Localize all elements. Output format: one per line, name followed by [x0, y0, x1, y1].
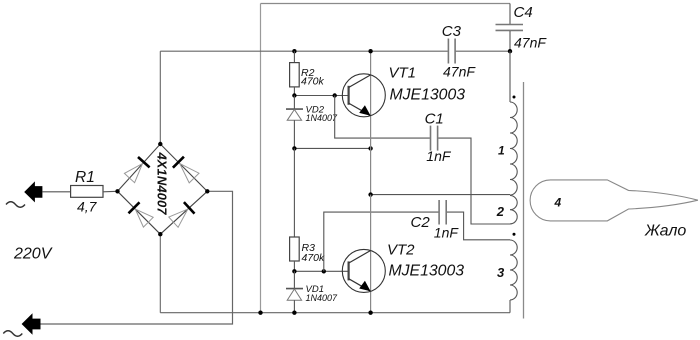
wire C4 top lead [509, 4, 511, 25]
svg-text:4X1N4007: 4X1N4007 [155, 152, 170, 216]
svg-text:470k: 470k [302, 252, 326, 264]
svg-text:1N4007: 1N4007 [306, 293, 339, 303]
wire AC return [41, 191, 233, 324]
bridge diode D-topleft [124, 157, 149, 183]
node bridge left [115, 189, 119, 193]
svg-text:1N4007: 1N4007 [306, 113, 339, 123]
node bridge top [158, 142, 162, 146]
svg-text:2: 2 [496, 204, 505, 219]
wire left border [260, 4, 262, 313]
bridge diode D-bottomleft [129, 202, 154, 227]
transformer winding 1 [498, 102, 517, 195]
winding 3 polarity dot [513, 233, 516, 236]
svg-text:Жало: Жало [644, 222, 686, 239]
AC input arrow bottom [3, 313, 40, 336]
svg-text:47nF: 47nF [514, 35, 547, 51]
wire R1 left lead [42, 191, 70, 193]
wire bridge top riser [159, 51, 161, 144]
wire plus rail [160, 50, 510, 52]
svg-text:4: 4 [554, 195, 562, 209]
wire C1 branch [335, 96, 510, 225]
capacitor C1 [425, 110, 452, 164]
node mid rail [368, 192, 372, 196]
node C4/C3/winding junction [508, 49, 512, 53]
wire C4 bottom lead [509, 31, 511, 51]
wire column VD2 to R3 [293, 148, 295, 237]
wire mid rail [371, 194, 510, 196]
svg-text:1: 1 [498, 144, 505, 158]
svg-text:220V: 220V [13, 246, 53, 263]
AC input arrow top [6, 181, 42, 207]
svg-text:1nF: 1nF [434, 224, 460, 240]
svg-text:C2: C2 [411, 214, 431, 231]
node C2 branch [322, 269, 326, 273]
node VD2 bottom [292, 146, 296, 150]
svg-text:VT2: VT2 [387, 242, 415, 259]
wire C2 branch [324, 212, 510, 271]
svg-text:1nF: 1nF [426, 148, 452, 164]
wire VD2 to emitter [294, 147, 370, 149]
diode VD2 [286, 96, 338, 149]
resistor R1 [71, 169, 103, 215]
node R2 top [292, 49, 296, 53]
wire R2 bottom lead [293, 87, 295, 96]
wire VT1 collector-emitter vertical [370, 51, 372, 194]
node VT1 base/R2/VD2 [292, 93, 296, 97]
svg-text:C1: C1 [425, 110, 444, 127]
svg-text:MJE13003: MJE13003 [390, 87, 466, 104]
bridge diamond edges [118, 144, 208, 234]
capacitor C4 [496, 4, 548, 51]
bridge 4X1N4007 [115, 142, 209, 237]
node C1 branch [333, 93, 337, 97]
node VT1 collector top [368, 49, 372, 53]
soldering tip winding 4 (Zhalo) [530, 180, 698, 221]
wire R2 top lead [293, 51, 295, 62]
transistor VT2 [342, 242, 464, 293]
wire winding 1 lead [509, 51, 511, 102]
transformer winding 2 [496, 196, 517, 224]
bridge diode D-bottomright [169, 202, 195, 227]
capacitor C3 [442, 23, 477, 80]
node bridge bottom [158, 232, 162, 236]
wire R3 bottom lead [293, 261, 295, 271]
svg-text:VT1: VT1 [389, 65, 417, 82]
wire VT1 base wire [294, 95, 348, 97]
transistor VT1 [342, 65, 465, 117]
svg-text:MJE13003: MJE13003 [389, 262, 465, 279]
node VT2 emitter bottom [368, 311, 372, 315]
resistor R3 [290, 237, 325, 264]
svg-text:4,7: 4,7 [77, 199, 98, 215]
svg-text:47nF: 47nF [443, 63, 476, 79]
resistor R2 [290, 63, 325, 88]
svg-text:R1: R1 [75, 169, 95, 186]
transformer winding 3 [497, 240, 517, 300]
capacitor C2 [411, 200, 460, 240]
node left border joins bottom rail [258, 311, 262, 315]
wire bottom rail [160, 312, 510, 314]
bridge diode D-topright [173, 157, 199, 183]
svg-text:C3: C3 [442, 23, 462, 40]
svg-text:470k: 470k [301, 76, 325, 88]
winding 1 polarity dot [513, 96, 516, 99]
svg-text:3: 3 [497, 265, 505, 280]
wire VT2 collector-emitter vertical [370, 195, 372, 313]
node R3/VD1/base VT2 [292, 269, 296, 273]
wire bridge bottom lead [159, 234, 161, 313]
wire winding 3 bottom lead [509, 300, 511, 313]
wire top rail [261, 3, 511, 5]
node bridge right [205, 189, 209, 193]
node emitter VT1 junction [368, 146, 372, 150]
wire R1 right lead [103, 190, 118, 193]
wire VT2 base wire [294, 270, 348, 272]
diode VD1 [286, 271, 338, 312]
svg-text:C4: C4 [514, 4, 533, 21]
node VD1 bottom [292, 311, 296, 315]
transformer core [523, 82, 525, 319]
